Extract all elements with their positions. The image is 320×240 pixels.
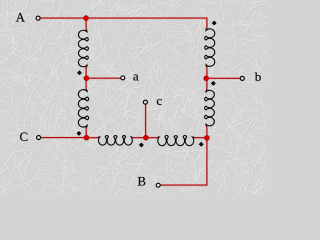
svg-text:c: c	[156, 93, 162, 108]
wire winding C1 to mid junction	[133, 137, 146, 139]
wire right junction down and left to B	[160, 126, 207, 185]
inductor winding C1 (bottom left)	[98, 136, 132, 146]
junction node b	[204, 76, 209, 81]
inductor winding B1 (phase B upper)	[205, 29, 215, 67]
junction node c	[143, 135, 148, 140]
wire left chain bottom stub	[85, 127, 87, 137]
wire A to top-right corner	[40, 18, 207, 29]
svg-text:B: B	[137, 174, 146, 189]
wire tap to terminal b	[208, 77, 240, 79]
wire mid junction to winding C2	[146, 137, 158, 139]
svg-text:C: C	[19, 129, 28, 144]
junction node a	[84, 76, 89, 81]
svg-text:A: A	[16, 10, 26, 25]
wire C to left junction	[41, 137, 87, 139]
junction node at A feeder and winding A1	[84, 16, 89, 21]
terminal b	[240, 76, 244, 80]
wire left junction to winding C1	[86, 137, 98, 139]
terminal c	[143, 100, 147, 104]
wire left chain top stub	[85, 18, 87, 30]
wire c drop	[145, 104, 147, 138]
polarity mark winding C2	[199, 142, 204, 147]
svg-text:b: b	[255, 69, 262, 84]
junction node C	[84, 135, 89, 140]
polarity mark winding B2	[211, 81, 216, 86]
inductor winding C2 (bottom right)	[158, 135, 195, 145]
terminal a	[121, 76, 125, 80]
terminal B	[156, 183, 160, 187]
terminal A	[36, 16, 40, 20]
polarity mark winding A2	[76, 131, 81, 136]
terminal C	[37, 136, 41, 140]
wire left chain between coils	[85, 67, 87, 90]
inductor winding A2 (phase A lower)	[78, 90, 88, 128]
wire winding C2 to right junction	[194, 137, 207, 139]
polarity mark winding C1	[139, 143, 144, 148]
inductor winding A1 (phase A upper)	[78, 30, 88, 67]
junction node B	[204, 135, 209, 140]
inductor winding B2 (phase B lower)	[205, 90, 215, 126]
wire tap to terminal a	[86, 77, 120, 79]
svg-text:a: a	[133, 69, 139, 84]
polarity mark winding A1	[77, 70, 82, 75]
polarity mark winding B1	[212, 21, 217, 26]
wire right chain between coils	[206, 67, 208, 90]
